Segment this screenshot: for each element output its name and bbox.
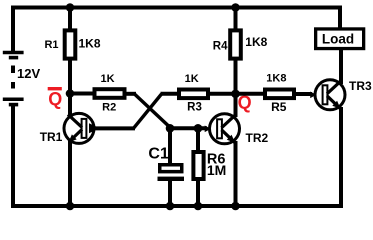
load box [316, 29, 364, 49]
svg-text:Load: Load [322, 32, 354, 47]
svg-text:1K8: 1K8 [266, 73, 286, 85]
svg-text:1K8: 1K8 [79, 37, 101, 51]
node TR1 emitter / ground rail [66, 202, 75, 211]
node C1 junction dot [166, 124, 175, 133]
wire TR1 emitter to ground [68, 140, 72, 206]
transistor TR1 base arrow [89, 123, 100, 133]
wire bottom ground rail [11, 204, 343, 208]
wire TR3 emitter to ground [339, 107, 343, 208]
node Qbar overbar [48, 87, 62, 90]
transistor TR3 [310, 80, 345, 110]
wire diagonal TR1-base to R3 [134, 94, 162, 128]
resistor R5 [265, 90, 294, 99]
battery B1 [3, 6, 24, 209]
svg-text:C1: C1 [148, 146, 169, 163]
wire TR2 emitter to ground [234, 141, 238, 206]
svg-text:1K: 1K [185, 73, 199, 85]
resistor R6 [193, 128, 203, 206]
svg-text:Q: Q [48, 89, 62, 109]
resistor R1 [65, 8, 76, 94]
node R6 junction dot [194, 124, 203, 133]
node Qbar junction dot [66, 89, 75, 98]
wire R3 left stub [161, 92, 179, 96]
wire top rail drop to Load [338, 6, 342, 31]
svg-text:12V: 12V [17, 66, 40, 81]
svg-text:TR2: TR2 [246, 131, 269, 145]
svg-text:1M: 1M [207, 162, 226, 178]
svg-text:R1: R1 [44, 39, 58, 51]
wire R3 to node Q [208, 92, 236, 96]
svg-text:1K8: 1K8 [245, 35, 267, 49]
wire R5 to TR3 base [294, 92, 312, 96]
wire R2 right stub [127, 92, 137, 96]
wire top supply rail [11, 6, 342, 10]
node junction top rail / R1 [66, 3, 75, 12]
node junction top rail / R4 [231, 3, 240, 12]
svg-text:R5: R5 [271, 100, 287, 114]
wire node row C1 to TR2 base [170, 126, 207, 130]
capacitor C1 [158, 128, 185, 206]
node C1 / ground rail [166, 202, 175, 211]
wire Qbar to R2 [70, 92, 93, 96]
transistor TR1 [64, 113, 94, 143]
svg-text:R2: R2 [102, 102, 116, 114]
svg-text:TR3: TR3 [349, 79, 372, 93]
resistor R2 [95, 89, 125, 98]
svg-text:R4: R4 [213, 40, 228, 52]
transistor TR2 [205, 114, 240, 144]
wire TR1 collector to Qbar [68, 94, 72, 118]
node Q junction dot [231, 90, 240, 99]
wire TR2 collector to node Q [234, 94, 238, 117]
svg-text:TR1: TR1 [40, 130, 63, 144]
wire TR1 base to coupling [94, 126, 135, 130]
wire TR3 collector to Load [339, 49, 343, 84]
node TR2 emitter / ground rail [231, 202, 240, 211]
wire diagonal R2 to TR2-base node [135, 94, 172, 128]
resistor R4 [230, 8, 241, 94]
node R6 / ground rail [194, 202, 203, 211]
svg-text:R3: R3 [187, 102, 202, 114]
resistor R3 [179, 90, 208, 99]
svg-text:1K: 1K [100, 73, 114, 85]
wire node Q to R5 [236, 92, 266, 96]
